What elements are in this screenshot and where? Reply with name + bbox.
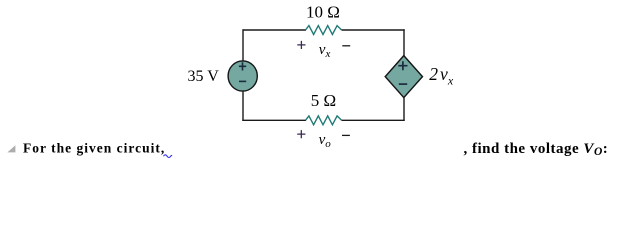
label + polarity of vx [297,41,305,49]
wire right vertical lower [403,97,405,122]
dependent source plus sign [398,61,407,70]
svg-text:vo: vo [319,132,332,150]
voltage source V1 plus sign [239,62,246,70]
svg-text:2vx: 2vx [429,64,454,87]
svg-text:vx: vx [319,42,331,60]
wire left vertical upper [242,29,244,62]
label + polarity of vo [297,130,305,138]
svg-text:, find the voltage VO:: , find the voltage VO: [464,141,609,158]
wire top-right horizontal [342,29,405,31]
resistor R2 (5 ohm) zigzag [306,116,342,125]
resistor R1 (10 ohm) zigzag [306,26,342,35]
voltage source V1 35V circle [228,61,257,91]
wire top-left horizontal [243,29,307,31]
svg-text:10 Ω: 10 Ω [306,2,340,21]
wire right vertical upper [403,29,405,57]
svg-text:For the given circuit,: For the given circuit, [23,141,165,156]
spellcheck squiggle [164,155,173,158]
dependent source 2vx diamond [385,56,422,98]
label - polarity of vo [342,134,350,136]
svg-text:5 Ω: 5 Ω [311,91,336,110]
label - polarity of vx [342,45,350,47]
svg-text:35 V: 35 V [188,68,220,85]
dependent source minus sign [399,83,407,85]
marker triangle (list bullet) [7,145,15,152]
wire bottom-right horizontal [342,119,405,121]
wire left vertical lower [242,91,244,122]
voltage source V1 minus sign [239,80,246,82]
wire bottom-left horizontal [242,119,306,121]
